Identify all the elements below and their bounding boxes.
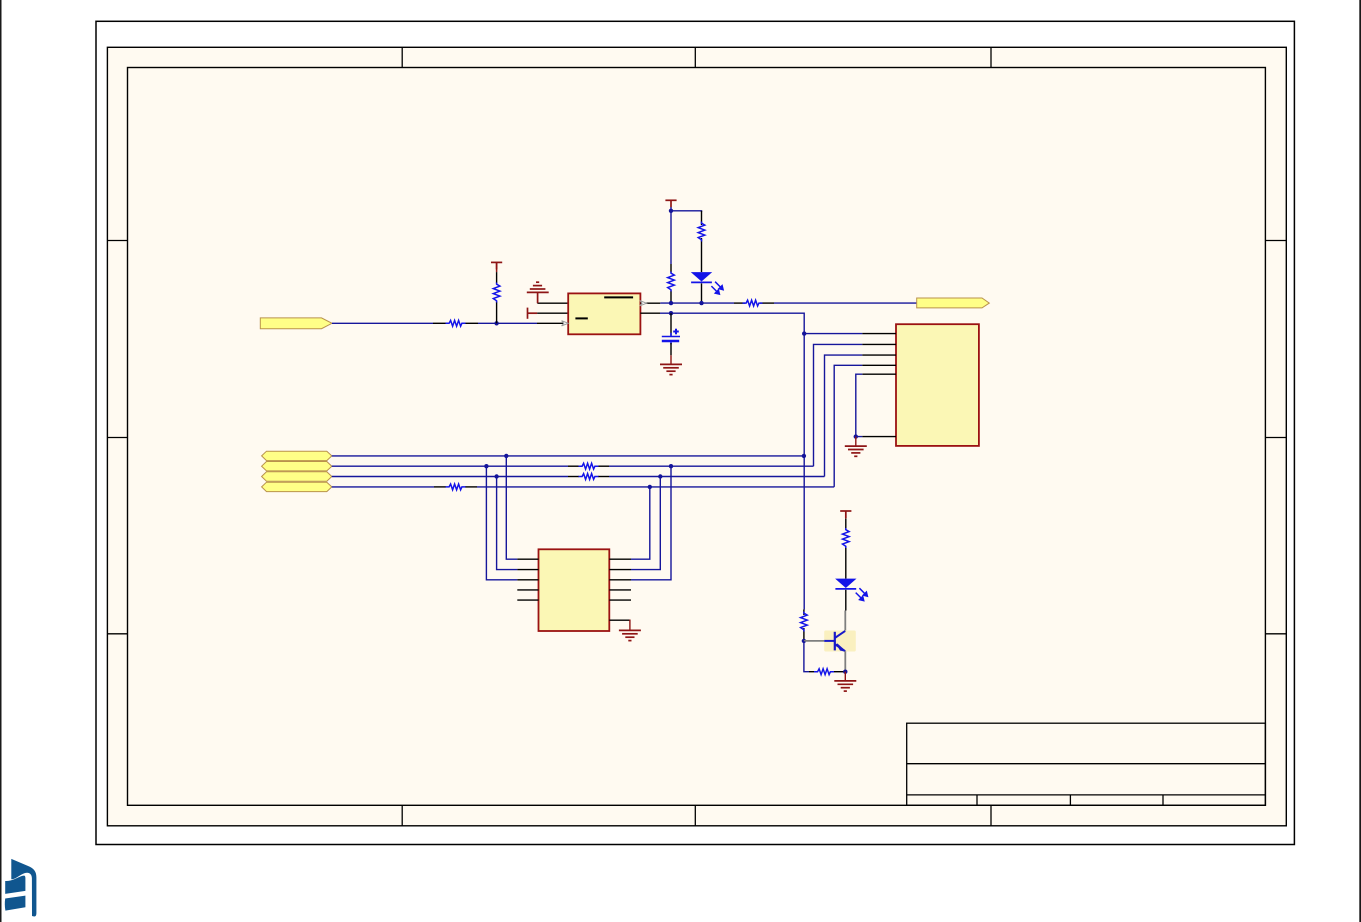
wire R3 to port P2 [774, 302, 917, 304]
LED D2 [835, 579, 867, 601]
ground G3 [619, 630, 641, 640]
resistor R2 [668, 272, 675, 292]
node D1 bottom [699, 301, 703, 305]
power T1 top [665, 200, 676, 207]
resistor R1 [698, 222, 705, 242]
resistor R6 pins [434, 486, 446, 488]
U2 pin6 (bottom) [862, 436, 896, 438]
U2 pin5 [862, 373, 896, 375]
resistor R11 [843, 528, 850, 548]
node w3/riser3 [494, 474, 498, 478]
top zone ticks [107, 47, 1286, 826]
port P2 (right, right-pointing) [917, 298, 990, 308]
node bus/pin1 [802, 331, 806, 335]
U1 pin 5 (right bottom, black) [640, 312, 660, 314]
U3 (bottom IC box) [539, 549, 610, 631]
resistor R3 [743, 300, 763, 306]
wire T1 down to R2 [670, 211, 672, 264]
LED D1 [691, 272, 723, 294]
resistor R8 [579, 474, 599, 480]
U2 pin3 [862, 354, 896, 356]
U1 text bar 2 [575, 317, 587, 319]
resistor R5 [446, 320, 466, 326]
resistor R7 pins [568, 465, 579, 467]
wire riser2 to U3 pin3L [486, 466, 517, 580]
wire w4 left [332, 486, 434, 488]
U3 pin3R [609, 579, 631, 581]
U3 pin5R stub [609, 599, 631, 601]
capacitor C1 pin top [670, 313, 672, 335]
title block [907, 723, 1266, 805]
node w2/riserR3 [669, 464, 673, 468]
U1 pin4 output arrow [640, 301, 647, 306]
resistor R8 pins [568, 476, 579, 478]
sheet area (cream) second border [107, 47, 1286, 826]
earth E1 (flipped) above pin1 [527, 282, 549, 303]
node w1 end on vertical bus [802, 454, 806, 458]
resistor R10 [814, 669, 834, 675]
ground G1 [660, 364, 682, 374]
U2 pin2 [862, 343, 896, 345]
bottom zone ticks [401, 805, 403, 826]
wire riserR2 to U3 pin2R [631, 477, 660, 570]
node R2 bottom [669, 301, 673, 305]
Q1 base lead (gray) [804, 640, 824, 642]
wire T1 node [671, 207, 702, 212]
wire w1 [332, 455, 804, 457]
U1 pin 2 (black) [537, 312, 568, 314]
node pin5/pin6 gnd [854, 434, 858, 438]
left zone ticks [107, 240, 127, 242]
wire w3 right [609, 476, 825, 478]
U3 pin4R stub [609, 589, 631, 591]
resistor R2 pins [670, 264, 672, 273]
U2 pin1 [862, 333, 896, 335]
wire net VOUT (y=303) [660, 302, 734, 304]
wire node to ground [855, 437, 857, 447]
port P5 [262, 472, 332, 481]
U1 pin3 input arrow [562, 321, 569, 326]
U3 pin5L stub [517, 599, 538, 601]
U3 pin1L [517, 558, 538, 560]
resistor R4 pins [496, 262, 498, 272]
Q1 collector lead (gray) [844, 611, 846, 632]
port P3 [262, 451, 332, 460]
power T2 (left-pointing bar) [528, 308, 538, 319]
wire w2 left [332, 465, 568, 467]
wire C1 to ground [670, 355, 672, 364]
node w3/riserR2 [658, 474, 662, 478]
wire w3 riser up to U2 pin3 [825, 355, 863, 476]
U1 text bar 1 [604, 296, 633, 298]
port P1 (left, right-pointing) [260, 318, 332, 329]
Q1 emitter lead (gray) [844, 651, 846, 672]
U3 pin2L [517, 569, 538, 571]
U1 pin 4 (right top, black) [640, 302, 660, 304]
power T4 [491, 262, 502, 269]
resistor R3 pins [734, 302, 745, 304]
D1 cathode pin [701, 283, 703, 303]
wire riser3 to U3 pin2L [497, 477, 518, 570]
node A junction R4/wire [494, 321, 498, 325]
node C1 tap [669, 311, 673, 315]
U3 pin2R [609, 569, 631, 571]
wire emitter node to ground [844, 672, 846, 681]
outer border rect [96, 21, 1294, 844]
resistor R9 pins [803, 610, 805, 616]
wire base node down [804, 641, 809, 672]
left screen edge line [0, 0, 2, 922]
capacitor C1 [662, 329, 680, 345]
resistor R4 [493, 283, 500, 303]
wire w3 left [332, 476, 568, 478]
wire R5 to U1 [478, 322, 537, 324]
node w4/riserR1 [648, 485, 652, 489]
port P6 [262, 482, 332, 491]
wire bus to U2 pin1 [804, 333, 862, 335]
wire riserR3 to U3 pin3R [631, 466, 671, 580]
wire w2 right [609, 465, 814, 467]
U3 pin3L [517, 579, 538, 581]
inner border [128, 68, 1266, 806]
U2 (big IC box) [896, 324, 979, 446]
node base [802, 639, 806, 643]
wire riserR1 to U3 pin1R [631, 487, 650, 559]
U3 pin1R [609, 558, 631, 560]
wire U1 pin5 to vertical bus [660, 313, 804, 609]
node emitter [843, 670, 847, 674]
resistor R5 pins [433, 322, 446, 324]
ground G4 [834, 681, 856, 691]
U2 pin4 [862, 364, 896, 366]
resistor R6 [446, 484, 466, 490]
right zone ticks [1265, 240, 1286, 242]
resistor R11 pins [845, 511, 847, 519]
wire pin6R to ground (red stem) [629, 620, 631, 631]
wire w2 riser up to U2 pin2 [814, 344, 863, 466]
wire w4 riser up to U2 pin4 [834, 365, 862, 487]
resistor R7 [579, 463, 599, 469]
node w2/riser2 [484, 464, 488, 468]
wire P1 to R5 [332, 322, 433, 324]
capacitor C1 pin bottom [670, 343, 672, 355]
resistor R1 pins [701, 211, 703, 225]
wire riser1 to U3 pin1L [506, 456, 517, 559]
op-amp U1 (regulator box) [568, 293, 640, 334]
right screen edge line [1359, 0, 1361, 922]
resistor R9 [801, 612, 808, 632]
port P4 [262, 462, 332, 471]
U1 pin 3 (black) [537, 322, 568, 324]
ground G2 [845, 446, 867, 456]
resistor R10 pins [809, 671, 816, 673]
transistor Q1 [824, 631, 856, 652]
D2 cathode pin [845, 590, 847, 611]
wire w4 mid [477, 486, 834, 488]
power T3 [840, 511, 851, 518]
U3 pin6R (gnd) [609, 619, 630, 621]
U1 pin 1 (black) [537, 302, 568, 304]
node T1 junction [669, 209, 673, 213]
wire pin5 to gnd node [856, 374, 863, 436]
U3 pin4L stub [517, 589, 538, 591]
node w1/riser1 [504, 454, 508, 458]
